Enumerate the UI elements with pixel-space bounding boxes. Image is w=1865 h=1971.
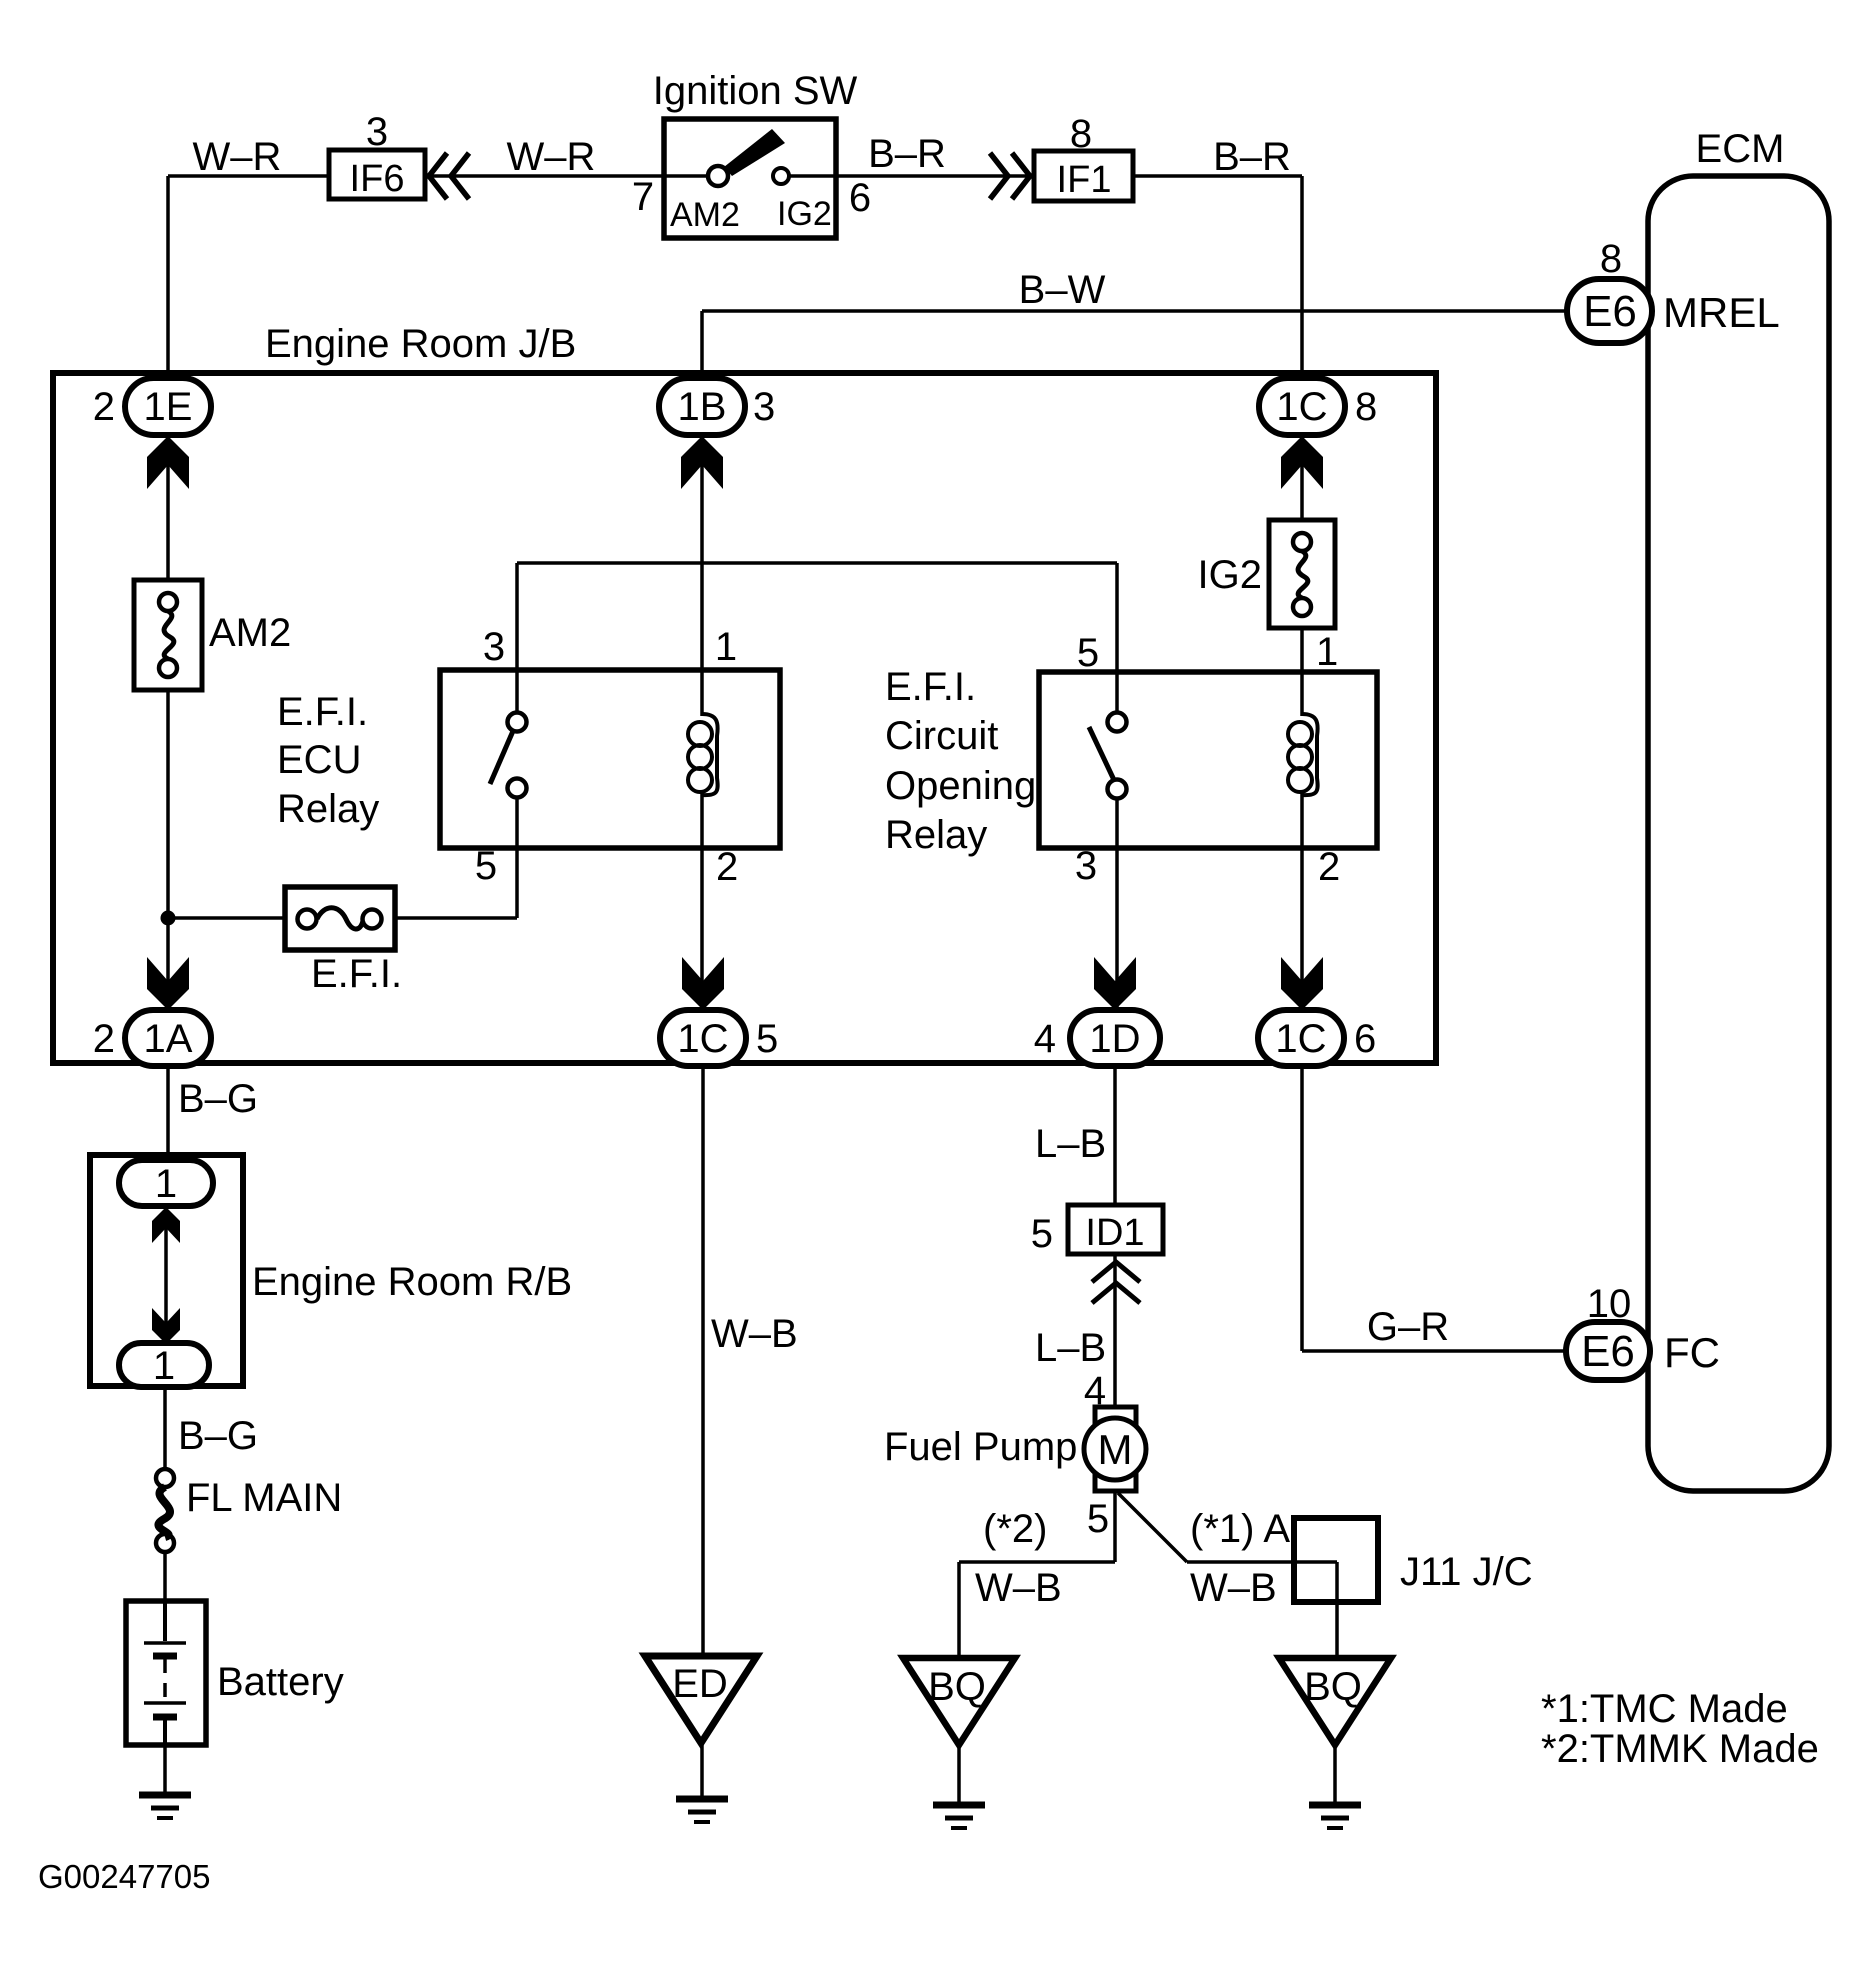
svg-text:ID1: ID1 <box>1085 1212 1144 1254</box>
svg-text:5: 5 <box>1031 1212 1053 1256</box>
svg-text:8: 8 <box>1355 385 1377 429</box>
svg-text:FC: FC <box>1664 1329 1720 1376</box>
svg-text:Battery: Battery <box>217 1660 344 1704</box>
svg-text:G00247705: G00247705 <box>38 1858 211 1895</box>
svg-text:1C: 1C <box>1276 385 1327 429</box>
svg-text:W–R: W–R <box>193 135 282 179</box>
svg-text:1C: 1C <box>1275 1017 1326 1061</box>
svg-text:7: 7 <box>632 175 654 219</box>
svg-text:E.F.I.: E.F.I. <box>311 952 402 996</box>
svg-text:(*2): (*2) <box>983 1507 1047 1551</box>
svg-text:Fuel Pump: Fuel Pump <box>884 1425 1077 1469</box>
svg-text:4: 4 <box>1084 1369 1106 1413</box>
svg-text:IG2: IG2 <box>1198 553 1262 597</box>
svg-text:1: 1 <box>1316 630 1338 674</box>
svg-text:IF1: IF1 <box>1057 159 1112 201</box>
svg-text:Ignition SW: Ignition SW <box>653 69 858 113</box>
svg-text:3: 3 <box>366 110 388 154</box>
svg-text:2: 2 <box>93 385 115 429</box>
svg-text:8: 8 <box>1600 237 1622 281</box>
svg-text:B–R: B–R <box>1213 135 1291 179</box>
svg-text:1: 1 <box>715 625 737 669</box>
svg-text:AM2: AM2 <box>670 196 740 234</box>
svg-text:L–B: L–B <box>1035 1326 1106 1370</box>
svg-text:2: 2 <box>1318 845 1340 889</box>
svg-text:BQ: BQ <box>1304 1665 1362 1709</box>
svg-text:10: 10 <box>1587 1282 1632 1326</box>
svg-text:W–B: W–B <box>1190 1566 1277 1610</box>
svg-text:B–G: B–G <box>178 1077 258 1121</box>
svg-text:B–G: B–G <box>178 1414 258 1458</box>
svg-text:BQ: BQ <box>928 1665 986 1709</box>
svg-text:AM2: AM2 <box>209 611 291 655</box>
svg-text:6: 6 <box>849 176 871 220</box>
svg-text:2: 2 <box>716 845 738 889</box>
svg-text:Circuit: Circuit <box>885 714 998 758</box>
svg-text:6: 6 <box>1354 1017 1376 1061</box>
svg-text:3: 3 <box>1075 844 1097 888</box>
svg-text:5: 5 <box>756 1017 778 1061</box>
svg-text:1: 1 <box>155 1162 177 1206</box>
svg-text:1A: 1A <box>144 1017 193 1061</box>
svg-text:Relay: Relay <box>885 813 987 857</box>
svg-text:*2:TMMK Made: *2:TMMK Made <box>1541 1727 1819 1771</box>
svg-text:ECM: ECM <box>1696 127 1785 171</box>
svg-text:ED: ED <box>672 1662 728 1706</box>
svg-text:Relay: Relay <box>277 787 379 831</box>
svg-text:E.F.I.: E.F.I. <box>277 690 368 734</box>
svg-text:W–B: W–B <box>975 1566 1062 1610</box>
svg-text:2: 2 <box>93 1017 115 1061</box>
svg-text:5: 5 <box>475 844 497 888</box>
svg-text:E.F.I.: E.F.I. <box>885 665 976 709</box>
svg-text:E6: E6 <box>1583 287 1637 336</box>
svg-text:L–B: L–B <box>1035 1122 1106 1166</box>
svg-text:B–W: B–W <box>1019 268 1106 312</box>
svg-text:3: 3 <box>483 625 505 669</box>
svg-text:G–R: G–R <box>1367 1305 1449 1349</box>
svg-text:1B: 1B <box>678 385 727 429</box>
svg-text:1: 1 <box>153 1344 175 1388</box>
svg-text:W–R: W–R <box>507 135 596 179</box>
svg-text:W–B: W–B <box>711 1312 798 1356</box>
svg-text:*1:TMC Made: *1:TMC Made <box>1541 1687 1788 1731</box>
svg-text:MREL: MREL <box>1663 289 1780 336</box>
svg-text:IF6: IF6 <box>350 158 405 200</box>
svg-text:5: 5 <box>1077 631 1099 675</box>
svg-text:4: 4 <box>1034 1017 1056 1061</box>
svg-text:1E: 1E <box>144 385 193 429</box>
svg-text:3: 3 <box>753 385 775 429</box>
svg-text:J11 J/C: J11 J/C <box>1400 1550 1533 1594</box>
svg-text:5: 5 <box>1087 1497 1109 1541</box>
svg-text:Opening: Opening <box>885 764 1036 808</box>
svg-text:1C: 1C <box>677 1017 728 1061</box>
svg-text:FL MAIN: FL MAIN <box>186 1476 342 1520</box>
svg-text:(*1) A: (*1) A <box>1190 1507 1290 1551</box>
svg-text:1D: 1D <box>1089 1017 1140 1061</box>
svg-text:B–R: B–R <box>868 132 946 176</box>
svg-text:8: 8 <box>1070 112 1092 156</box>
svg-text:Engine Room J/B: Engine Room J/B <box>265 322 576 366</box>
svg-text:ECU: ECU <box>277 738 361 782</box>
svg-text:E6: E6 <box>1581 1327 1635 1376</box>
svg-text:M: M <box>1098 1426 1133 1473</box>
svg-text:IG2: IG2 <box>777 195 832 233</box>
svg-text:Engine Room R/B: Engine Room R/B <box>252 1260 572 1304</box>
